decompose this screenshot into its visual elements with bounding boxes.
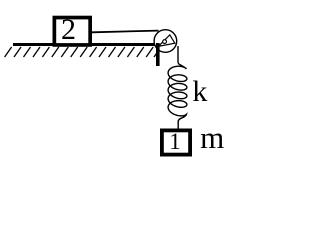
- svg-text:m: m: [200, 120, 224, 155]
- svg-text:1: 1: [169, 129, 181, 154]
- svg-text:2: 2: [61, 13, 76, 46]
- svg-text:k: k: [192, 75, 207, 108]
